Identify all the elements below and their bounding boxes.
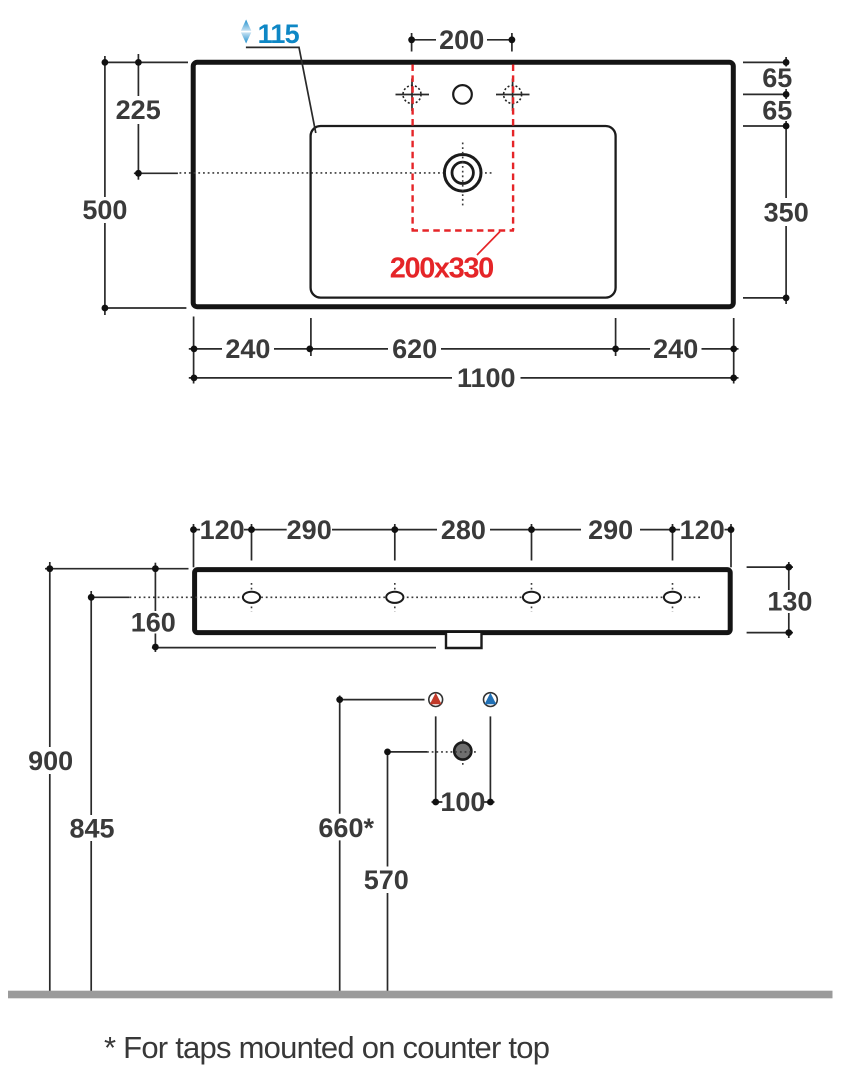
front top dims 120/290/280/290/120 [190, 515, 734, 567]
hot tap symbol (red) [429, 693, 443, 707]
basin front rect (front view) [195, 570, 731, 633]
svg-text:280: 280 [441, 515, 486, 545]
ext line to wall (left, top of basin) [45, 568, 189, 570]
right tap hole crosshair [496, 79, 530, 112]
svg-text:900: 900 [28, 746, 73, 776]
bowl rounded rect [311, 126, 616, 298]
cold tap symbol (blue) [484, 693, 498, 707]
svg-text:225: 225 [116, 95, 161, 125]
drain inner circle [452, 162, 473, 183]
drain outer circle [444, 155, 481, 192]
centerline dotted (top view) [180, 172, 494, 174]
svg-text:65: 65 [762, 63, 792, 93]
svg-text:570: 570 [364, 865, 409, 895]
overflow circle [453, 85, 472, 104]
left tap hole crosshair [396, 79, 430, 112]
bottom dim 1100 [189, 363, 739, 393]
svg-text:660*: 660* [318, 813, 374, 843]
floor bar [8, 991, 833, 999]
svg-text:200: 200 [439, 25, 484, 55]
mounting hole 1 [243, 583, 260, 612]
basin outer rect (top view) [193, 62, 733, 306]
115 leader line [246, 47, 316, 133]
mounting hole 2 [386, 583, 403, 612]
tap drop lines + dim 100 [432, 716, 495, 817]
svg-text:100: 100 [440, 787, 485, 817]
left tap hole dotted circle [403, 86, 421, 104]
svg-text:65: 65 [762, 96, 792, 126]
svg-text:120: 120 [680, 515, 725, 545]
mounting hole 4 [664, 583, 681, 612]
front centerline dotted [130, 596, 701, 598]
svg-text:1100: 1100 [457, 363, 516, 393]
svg-text:350: 350 [764, 198, 809, 228]
svg-text:290: 290 [287, 515, 332, 545]
right tap hole dotted circle [504, 86, 522, 104]
svg-text:160: 160 [131, 608, 176, 638]
dim 225 (left) [116, 54, 178, 180]
svg-text:200x330: 200x330 [390, 253, 495, 285]
red leader line [477, 232, 500, 256]
dim 845 [69, 591, 129, 991]
svg-text:120: 120 [200, 515, 245, 545]
svg-text:115: 115 [258, 19, 300, 49]
dim 570 [364, 749, 478, 992]
svg-text:130: 130 [767, 587, 812, 617]
drain outlet tab [446, 633, 482, 648]
dim 900 [28, 562, 73, 991]
red dashed cutout rect 200x330 [412, 65, 515, 231]
svg-text:845: 845 [69, 814, 114, 844]
mixer hole (filled) [454, 740, 471, 766]
115 icon (blue up/down arrows) [241, 20, 251, 44]
svg-text:290: 290 [588, 515, 633, 545]
svg-text:* For taps mounted on counter: * For taps mounted on counter top [104, 1030, 550, 1065]
dims 65/65/350 (right) [743, 57, 809, 304]
drain vertical dotted crosshair [462, 143, 464, 207]
svg-text:620: 620 [392, 334, 437, 364]
dim 500 (left) [82, 56, 188, 315]
svg-text:500: 500 [82, 195, 127, 225]
bottom dims 240/620/240 [189, 317, 739, 384]
svg-text:240: 240 [653, 334, 698, 364]
mounting hole 3 [523, 583, 540, 612]
dim 200 (tap spacing) [408, 25, 515, 55]
dim 660* [318, 696, 424, 992]
svg-text:240: 240 [225, 334, 270, 364]
dim 130 (front right) [747, 562, 813, 638]
dim 160 [131, 563, 436, 652]
